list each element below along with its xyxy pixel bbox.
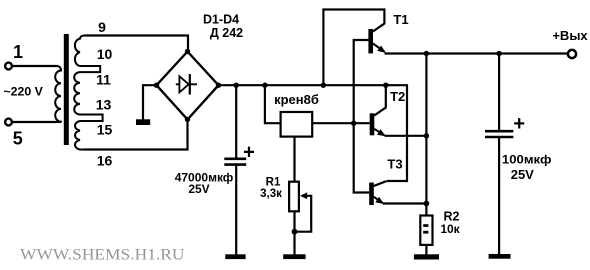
wire terminal1 to primary winding (12, 65, 58, 67)
transformer TR1 secondary winding with taps (74, 36, 102, 150)
ground R1 (283, 254, 305, 259)
capacitor C2 bottom wire (498, 137, 500, 254)
wire T1 emitter output rail (385, 52, 568, 54)
svg-text:100мкф: 100мкф (502, 152, 552, 166)
node bridge top (185, 49, 190, 54)
potentiometer R1 wiper arrow (295, 192, 312, 231)
transistor T3 (369, 181, 387, 205)
capacitor C1 47000mkf top wire (235, 85, 237, 158)
wire positive rail (219, 85, 408, 181)
svg-text:9: 9 (98, 19, 106, 35)
svg-text:T1: T1 (393, 12, 408, 27)
wire bridge minus to ground (143, 85, 157, 119)
svg-text:13: 13 (96, 96, 112, 112)
wire secondary top to bridge (84, 36, 188, 52)
regulator U1 kren8b box (281, 112, 313, 137)
svg-text:+: + (243, 142, 255, 164)
node R1 wiper junction (292, 229, 298, 235)
output terminal +Vyh (552, 28, 588, 58)
wire base bus vertical (354, 40, 370, 193)
transistor T1 (323, 10, 385, 86)
ground bridge minus (136, 119, 150, 125)
svg-text:25V: 25V (188, 182, 209, 196)
bridge rectifier D1-D4 diamond (157, 52, 219, 120)
wire kren bottom pin to R1 (293, 137, 295, 182)
node bridge bottom (185, 117, 190, 122)
node T1 collector rail junction (321, 83, 326, 88)
capacitor C1 plates (224, 159, 246, 165)
svg-text:+: + (513, 113, 525, 135)
node bridge right (216, 83, 221, 88)
wire R1 bottom to ground (293, 211, 295, 254)
potentiometer R1 body (289, 182, 299, 212)
svg-text:3,3к: 3,3к (260, 188, 282, 200)
wire terminal5 to primary winding (12, 121, 58, 123)
svg-text:1: 1 (13, 42, 23, 62)
svg-text:T2: T2 (390, 89, 405, 104)
transformer TR1 core (64, 34, 69, 145)
svg-text:16: 16 (97, 153, 113, 169)
svg-text:D1-D4: D1-D4 (203, 12, 239, 26)
bridge diode symbol (176, 74, 197, 95)
svg-text:25V: 25V (511, 167, 534, 182)
node T2 emitter junction (424, 133, 429, 138)
svg-text:T3: T3 (387, 156, 402, 171)
node base bus junction (351, 121, 356, 126)
svg-text:+Вых: +Вых (552, 28, 588, 43)
node T1 emitter junction (424, 51, 429, 56)
wire secondary bottom to bridge (84, 120, 188, 150)
capacitor C2 100mkf top wire (498, 54, 500, 131)
wire kren output to base bus (312, 122, 370, 124)
wire kren input (265, 85, 281, 123)
wire R2 to ground (425, 245, 427, 255)
svg-text:~220 V: ~220 V (4, 84, 44, 98)
svg-text:15: 15 (97, 121, 113, 137)
svg-text:Д 242: Д 242 (210, 26, 243, 40)
node C2 tap (496, 51, 501, 56)
capacitor C1 bottom wire (235, 165, 237, 255)
ground C1 (225, 254, 245, 259)
node T2 collector rail junction (383, 83, 388, 88)
transformer TR1 primary terminal 5 (5, 119, 23, 149)
ground R2 (414, 254, 439, 259)
ground C2 (489, 254, 511, 259)
capacitor C2 plates (485, 131, 513, 137)
svg-text:WWW.SHEMS.H1.RU: WWW.SHEMS.H1.RU (20, 246, 185, 263)
svg-text:R1: R1 (266, 177, 281, 189)
transformer TR1 primary terminal 1 (5, 42, 23, 69)
node T3 emitter junction (424, 201, 430, 207)
node kren input tap (262, 83, 267, 88)
resistor R2 body (420, 216, 432, 245)
transformer TR1 primary winding (55, 66, 61, 122)
svg-text:крен8б: крен8б (274, 92, 319, 107)
transistor T2 (370, 85, 386, 136)
node C1 tap (234, 83, 239, 88)
svg-text:5: 5 (13, 129, 23, 149)
svg-text:11: 11 (96, 71, 111, 87)
svg-text:10к: 10к (440, 222, 460, 236)
svg-text:10: 10 (97, 46, 113, 62)
node bridge left (154, 83, 159, 88)
wire T3 emitter to output vertical (383, 202, 426, 204)
wire output vertical to R2 (425, 54, 427, 216)
wire T2 emitter to output vertical (385, 135, 427, 137)
